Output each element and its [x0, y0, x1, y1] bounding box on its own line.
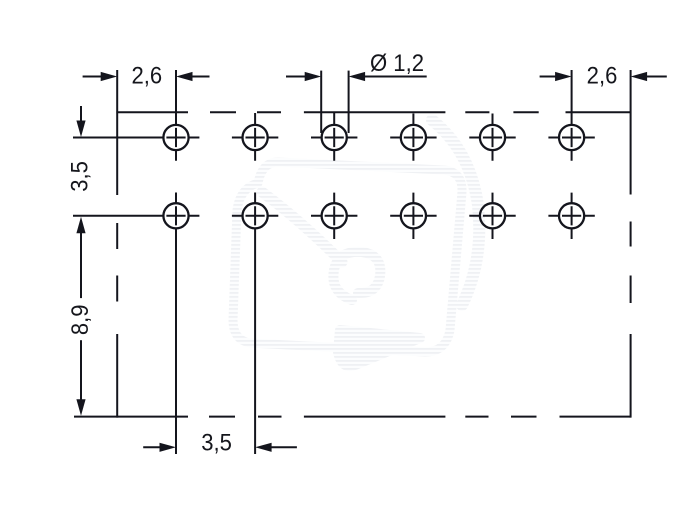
hole B5 (row2 col5) center mark [469, 193, 515, 239]
hole B1 (row2 col1) circle [163, 203, 188, 228]
hole A1 (row1 col1) circle [163, 125, 188, 150]
outline left edge / 2,6 extension line (broken) [116, 70, 118, 418]
hole B5 (row2 col5) circle [480, 203, 505, 228]
dim right 2,6 arrow pointing left at x=630.6 [631, 72, 648, 81]
svg-text:2,6: 2,6 [131, 62, 162, 89]
hole B6 (row2 col6) circle [559, 203, 584, 228]
dim bottom 3,5 arrow pointing left at hole col2 [255, 443, 272, 452]
hole B4 (row2 col4) center mark [390, 193, 436, 239]
dim left 2,6 arrow pointing right at x=117 [101, 72, 118, 81]
dim dia 1,2 arrow pointing right at x=321 [305, 72, 322, 81]
dim bottom 3,5 arrow pointing right at hole col1 [160, 443, 177, 452]
dim left 2,6 arrow pointing left at x=176 [176, 72, 193, 81]
hole A1 (row1 col1) center mark [73, 70, 199, 161]
dim right 2,6 arrow pointing right at x=571.6 [555, 72, 572, 81]
hole A6 (row1 col6) center mark [548, 70, 594, 161]
hole A4 (row1 col4) circle [401, 125, 426, 150]
hole A5 (row1 col5) center mark [469, 114, 515, 161]
outline right edge / 2,6 extension line (broken) [630, 70, 632, 418]
watermark logo (faint background) [233, 120, 479, 366]
hole A2 (row1 col2) circle [243, 125, 268, 150]
dim left 2,6: extension lines above top edge [175, 70, 177, 114]
dim 3,5 down arrow pointing at row1 line [76, 121, 85, 138]
hole B2 (row2 col2) circle [243, 203, 268, 228]
hole B4 (row2 col4) circle [401, 203, 426, 228]
dim diameter 1,2: tangent extension lines [320, 71, 322, 133]
dim 8,9 down arrow at bottom edge [76, 399, 85, 416]
hole B3 (row2 col3) center mark [311, 193, 357, 239]
hole B3 (row2 col3) circle [322, 203, 347, 228]
hole A6 (row1 col6) circle [559, 125, 584, 150]
svg-text:2,6: 2,6 [587, 62, 618, 89]
svg-text:3,5: 3,5 [66, 161, 93, 192]
svg-text:8,9: 8,9 [66, 304, 93, 335]
hole B2 (row2 col2) center mark [232, 193, 278, 455]
svg-text:3,5: 3,5 [201, 429, 232, 456]
hole A3 (row1 col3) circle [322, 125, 347, 150]
outline top edge y=112 (broken) [116, 111, 630, 113]
hole B1 (row2 col1) center mark [73, 193, 199, 455]
hole A5 (row1 col5) circle [480, 125, 505, 150]
hole A2 (row1 col2) center mark [232, 113, 278, 161]
hole B6 (row2 col6) center mark [548, 193, 594, 239]
svg-text:Ø 1,2: Ø 1,2 [370, 49, 424, 76]
dim 8,9 up arrow at row2 line, line broken for label [76, 217, 85, 234]
outline bottom edge + 8,9 extension (broken) [74, 416, 631, 418]
hole A3 (row1 col3) center mark [311, 112, 357, 161]
dim dia 1,2 arrow pointing left at x=349 with long tail [349, 72, 366, 81]
hole A4 (row1 col4) center mark [390, 114, 436, 161]
